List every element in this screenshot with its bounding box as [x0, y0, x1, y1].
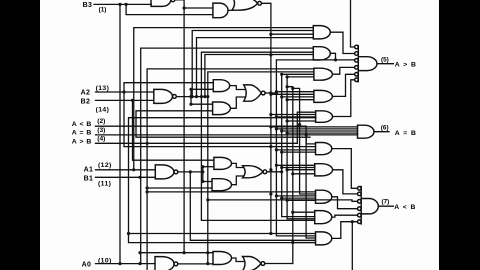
wire e3 branch to A-greater AND 5	[271, 114, 316, 116]
wire branch to A-less AND 3	[147, 191, 315, 193]
wire e3 branch to A-greater AND 1	[271, 33, 313, 35]
wire rail x147 loop to A-greater AND 3	[147, 69, 314, 270]
wire XNOR2 output to e2 rail	[265, 92, 276, 94]
wire e1 branch to A-less AND 3	[282, 197, 316, 199]
wire bit2 lower AND input line from left loop	[136, 111, 310, 137]
wire bit3 AND output to XNOR3	[228, 9, 233, 12]
and gate U22 (A-less group, 3rd)	[316, 190, 332, 203]
and gate U26 output A-equal-B	[358, 125, 375, 138]
wire nand U1 rail down	[183, 8, 185, 253]
wire B2 input	[96, 99, 154, 101]
wire e3 branch to A-greater AND 4	[271, 93, 314, 95]
and gate U13 (bit0 upper AND)	[213, 252, 232, 265]
wire rail x292 branch to A-less AND 2	[293, 173, 315, 175]
and gate U10 (bit1 lower AND)	[212, 179, 232, 191]
wire A-less AND1 output to bubble 1	[332, 149, 358, 189]
wire e1 branch to A-equal bundle line 3	[282, 130, 358, 132]
wire nand U4 branch to bit2 lower AND	[191, 103, 213, 105]
svg-text:(3): (3)	[97, 127, 105, 134]
wire e0 branch to A-greater AND 5	[287, 120, 316, 122]
wire nand U4 branch to A-greater AND 1 fourth input	[197, 38, 314, 97]
wire nand U4 branch up to A-greater AND 1	[192, 31, 313, 97]
svg-text:(7): (7)	[382, 198, 390, 205]
and gate U21 (A-less group, 2nd)	[315, 164, 333, 176]
wire rail x292 down to XNOR0 output	[287, 87, 293, 264]
svg-text:(14): (14)	[96, 106, 110, 113]
wire B2 branch down to bit1 upper AND	[133, 100, 214, 160]
wire nand U8 output	[178, 171, 203, 173]
wire nand U4 branch to A-greater AND 2 third input	[205, 55, 313, 97]
svg-text:(2): (2)	[97, 118, 105, 125]
wire bit1 upper AND output to XNOR1	[232, 163, 244, 167]
and gate U23 (A-less group, 4th)	[315, 211, 332, 224]
wire nand U4 long rail up and down	[201, 52, 314, 220]
node B3 rail at A0	[118, 262, 121, 265]
nand gate U4 (A2 B2)	[154, 89, 177, 103]
wire B3 vertical rail	[119, 4, 121, 263]
node e3 rail junctions	[269, 125, 272, 128]
node nand U1 rail at bit0 feed	[183, 251, 186, 254]
and gate U6 (bit2 lower AND)	[213, 102, 231, 115]
svg-text:A1: A1	[84, 167, 94, 174]
node step A-less AND1	[305, 133, 308, 136]
node nand U4 out branch 1b	[195, 95, 198, 98]
wire e2 branch to A-less AND 2	[276, 164, 314, 166]
svg-text:(6): (6)	[381, 124, 389, 131]
svg-text:A > B: A > B	[395, 62, 417, 69]
svg-text:A0: A0	[82, 261, 92, 268]
wire e2 branch to A-greater AND 5	[276, 116, 315, 118]
wire B3 branch to bit3 AND	[126, 4, 213, 14]
wire e1 rail	[282, 74, 315, 216]
node branch bit1 lower AND	[146, 186, 149, 189]
node e1 rail junctions	[280, 73, 283, 76]
nor gate U25 output A-greater-B (AND shape with 6 input bubbles)	[355, 45, 377, 81]
wire A-greater AND4 output to bubble 5	[333, 74, 355, 96]
wire nand U8 rail to bit1 ANDs	[202, 167, 204, 182]
svg-text:(11): (11)	[98, 181, 111, 188]
wire nand U12 output to bit0 AND	[178, 263, 213, 265]
wire rail x292 branch to A-less AND 4	[293, 211, 315, 213]
wire e2 branch to A-less AND 3	[276, 195, 315, 197]
wire e1 branch to A-less AND 1	[282, 151, 316, 153]
node nand U4 out branch 1c	[203, 95, 206, 98]
wire e0 branch to A-less AND 2	[287, 169, 315, 171]
svg-text:B1: B1	[84, 175, 94, 182]
wire A0 input	[96, 263, 156, 265]
wire rail x207 loop to A-greater AND 3 and down to A-less bubble 3	[208, 72, 358, 201]
and gate U15 (A-greater group, 1st)	[313, 26, 330, 39]
wire A-greater AND2 output joining e2 line to bubble 3	[331, 53, 336, 60]
svg-text:A > B: A > B	[72, 139, 92, 146]
wire branch to bit1 lower AND	[147, 187, 212, 189]
wire e1 branch to A-greater AND 4	[282, 96, 314, 98]
node B3 branch junction	[125, 3, 128, 6]
node nand U4 out branch 1	[191, 95, 194, 98]
nor gate U11 (bit1 XNOR output)	[243, 166, 267, 178]
wire A-less AND2 output to bubble 2	[333, 170, 358, 194]
and gate U9 (bit1 upper AND)	[214, 157, 232, 169]
wire XNOR1 output to e1 rail	[267, 171, 282, 173]
node B1 rail at A0	[138, 262, 141, 265]
node rail x128 branch	[127, 232, 130, 235]
node bubble 6 feed junction	[351, 220, 354, 223]
node cascade A-greater branch	[146, 142, 149, 145]
wire A-greater AND3 output to bubble 4	[333, 67, 355, 74]
node long rail A-less b3	[206, 198, 209, 201]
wire XNOR3 output to e3 rail	[262, 3, 271, 233]
node B2 branch	[131, 99, 134, 102]
and gate U18 (A-greater group, 4th)	[314, 90, 333, 102]
wire e2 branch to A-equal bundle line 2	[276, 128, 357, 130]
wire A2 input	[96, 91, 154, 93]
wire e0 branch to A-less AND 3	[287, 199, 315, 201]
wire B1 branch to bit0 AND	[140, 252, 213, 254]
wire nand U4 inner rail to bit2 ANDs	[190, 89, 192, 104]
and gate U17 (A-greater group, 3rd)	[314, 68, 333, 80]
node rail x207 at nand U4 output	[206, 95, 209, 98]
wire nand U8 branch down to A-less AND 5 row	[190, 172, 315, 240]
wire cascade A-greater route up to AND 5	[297, 112, 315, 143]
svg-text:(13): (13)	[96, 85, 110, 92]
node A1 branch	[132, 168, 135, 171]
node nand U4 out branch 2	[200, 95, 203, 98]
node nand U1 output junction	[183, 6, 186, 9]
wire to bit1 lower AND inner input	[203, 181, 212, 183]
svg-text:B2: B2	[81, 98, 91, 105]
wire cascade A-less input	[96, 125, 307, 127]
node nand U8 out junction	[201, 165, 204, 168]
wire output A-greater-B	[377, 63, 393, 65]
wire XNOR0 output to rail x292	[265, 263, 293, 265]
node rail x292 junctions	[291, 241, 294, 244]
node rail x207 at bit0 feeds	[206, 251, 209, 254]
wire A2 branch down to A-less gate row	[124, 92, 316, 147]
wire B3 input	[94, 3, 151, 5]
nor gate U27 output A-less-B (AND shape with 6 input bubbles)	[358, 187, 379, 225]
svg-text:A = B: A = B	[395, 130, 417, 137]
svg-text:A < B: A < B	[394, 204, 416, 211]
node B1 rail bit0 branch	[138, 251, 141, 254]
wire e0 branch to A-equal bundle line 5	[287, 132, 357, 134]
wire nand U4 branch to bit2 upper AND	[191, 88, 213, 90]
svg-text:A < B: A < B	[72, 121, 92, 128]
node branch A-less AND 3	[146, 190, 149, 193]
wire A-less AND4 output to bubble 5	[332, 215, 358, 217]
node nand U4 inner rail dots	[189, 88, 192, 91]
wire e2 rail up to A-greater bubble 3 and down	[276, 60, 354, 236]
node nand U8 down branch	[189, 170, 192, 173]
wire B1 input	[96, 176, 156, 178]
wire e0 rail	[287, 77, 315, 219]
wire e2 branch to A-less AND 1	[276, 149, 315, 151]
wire from A3 gates above crop to A-greater bubble 1	[351, 0, 355, 47]
and gate U5 (bit2 upper AND)	[213, 80, 229, 92]
node e3 rail at XNOR2 output	[269, 91, 272, 94]
wire from bit0 lower AND below crop to A-less bubble 6	[351, 222, 353, 270]
and gate U24 (A-less group, 5th)	[316, 232, 332, 245]
wire e3 branch to A-equal bundle line 1	[271, 126, 358, 128]
node e2 rail junctions	[275, 90, 278, 93]
wire cascade A-less route down	[306, 126, 315, 238]
wire e0 branch to A-greater AND 4	[287, 99, 314, 101]
wire nand U4 output	[176, 96, 208, 98]
wire A1 branch up to A-greater AND 1	[134, 28, 314, 170]
nor gate U7 (bit2 XNOR output)	[244, 85, 265, 101]
and gate U2 (bit3 lower AND)	[213, 3, 228, 18]
svg-text:(12): (12)	[98, 162, 112, 169]
wire e1 branch to A-greater AND 3	[282, 73, 314, 75]
svg-text:B3: B3	[83, 2, 93, 9]
wire A-less AND5 output to bubble 6	[332, 222, 358, 239]
nand gate U8 (A1 B1)	[155, 165, 178, 179]
wire output A-less-B	[378, 205, 393, 207]
nor gate U3 (bit3 XNOR output, partially cut)	[232, 0, 262, 10]
wire A-greater AND1 output to bubble 2	[331, 32, 355, 53]
svg-text:(1): (1)	[99, 6, 107, 13]
GATES	[151, 0, 378, 270]
svg-text:(10): (10)	[98, 257, 112, 264]
nor gate U14 (bit0 XNOR output, partially cut)	[243, 257, 265, 270]
svg-text:A2: A2	[81, 90, 91, 97]
wire step into A-less AND 1	[306, 135, 315, 144]
and gate U16 (A-greater group, 2nd)	[313, 47, 330, 60]
wire loop rail x128 to AND 5 and A-less AND 5	[129, 118, 316, 243]
wire stepped rail to A-less AND 3	[293, 88, 316, 194]
svg-text:(5): (5)	[381, 57, 389, 64]
wire A-less AND3 output to bubble 4	[332, 197, 358, 209]
node e0 rail junctions	[286, 75, 289, 78]
node A2 branch	[122, 90, 125, 93]
node AND2 output joins e2 line	[334, 58, 337, 61]
wire cascade A-equal input to output AND	[96, 134, 358, 136]
wire bit1 lower AND output to XNOR1	[232, 176, 244, 185]
wire nand U1 output to bit3 AND and long rail	[175, 0, 213, 8]
node B3 rail junction	[118, 3, 121, 6]
wire A-greater AND5 output to bubble 6	[333, 80, 355, 117]
wire rail below junction	[207, 200, 209, 264]
nand gate U12 (A0 B0, partially cut at bottom)	[155, 257, 178, 270]
wire bit0 AND output to XNOR0	[232, 258, 244, 262]
wire A2 branch up to bit2 upper AND	[124, 83, 213, 92]
wire e1 branch to A-less AND 2	[282, 167, 315, 169]
nand gate U1 (B3 row, top, partially cut)	[151, 0, 175, 6]
wire rail x128 branch to A-less AND 5	[129, 233, 316, 235]
node B1 branch	[138, 176, 141, 179]
and gate U19 (A-greater group, 5th)	[316, 111, 333, 123]
svg-text:(4): (4)	[97, 136, 105, 143]
wire e2 branch to A-greater AND 4	[276, 91, 314, 93]
wire rail x292 branch to A-less AND 5	[293, 242, 316, 244]
wire cascade A-greater input	[96, 142, 298, 144]
and gate U20 (A-less group, 1st)	[316, 143, 332, 155]
wire output A-equal-B	[374, 131, 389, 133]
wire bit2 upper AND output to XNOR2	[230, 86, 245, 90]
svg-text:A = B: A = B	[72, 129, 92, 136]
wire B1 rail down and up loop to A-greater AND 2	[141, 48, 314, 264]
wire e0 branch to A-greater AND 3	[287, 76, 314, 78]
wire A1 input	[96, 169, 156, 171]
wire bit2 lower AND output to XNOR2	[231, 97, 245, 108]
wire to bit1 upper AND inner input	[203, 166, 214, 168]
